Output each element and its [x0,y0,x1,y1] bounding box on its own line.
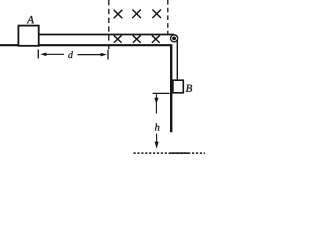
ground dash-dot line [134,152,206,154]
label d [68,51,73,58]
dimension h upper arrow (down) [155,94,157,113]
field cross row2 #2 [133,36,140,43]
block A [18,26,38,46]
dimension d left arrow [40,53,46,57]
pulley axle [172,37,176,41]
table surface line [0,44,171,46]
label h [155,123,159,130]
dimension d left tick [37,49,39,58]
field cross row1 #2 [133,10,141,18]
label A [27,16,34,23]
pulley [171,35,178,42]
left dashed field boundary [108,0,110,51]
right dashed field boundary [167,0,169,34]
dimension h top tick [153,92,170,94]
dimension h lower arrow (down) [156,134,158,148]
field cross row1 #1 [114,10,122,18]
dimension d right arrow [78,54,102,56]
field cross row1 #3 [153,10,161,18]
dimension d right tick [107,50,109,60]
string from A to pulley [40,34,175,36]
ground line long dash [170,152,189,154]
string over pulley (arc) [174,35,178,39]
vertical string to B [176,38,178,81]
field cross row2 #3 [152,36,159,43]
table edge rod [170,44,172,132]
field cross row2 #1 [114,36,121,43]
label B [186,85,192,92]
block B [173,80,183,93]
